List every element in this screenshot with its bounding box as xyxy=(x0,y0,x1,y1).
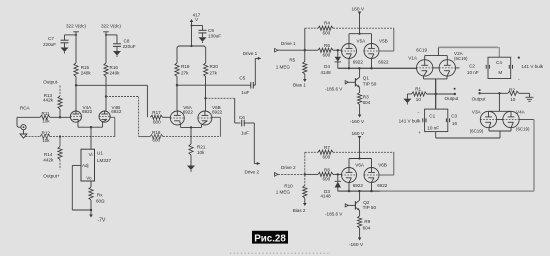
wire: Q1 emitter xyxy=(359,88,361,93)
wire: V6B plate riser xyxy=(204,77,206,112)
svg-text:(6C19): (6C19) xyxy=(516,126,530,131)
svg-text:Output-: Output- xyxy=(43,80,59,85)
wire: R7 to V6B grid (lower) xyxy=(379,152,394,175)
svg-text:C4: C4 xyxy=(496,60,502,65)
svg-text:10 nF: 10 nF xyxy=(467,70,479,75)
resistor R15 xyxy=(74,63,91,77)
resistor R11 xyxy=(17,111,70,123)
transistor Q1 xyxy=(355,76,376,88)
svg-text:Drive 1: Drive 1 xyxy=(281,41,296,46)
svg-text:600: 600 xyxy=(323,52,331,57)
wire: +417V rail xyxy=(190,19,194,47)
capacitor C2 label xyxy=(467,64,479,76)
svg-text:U1: U1 xyxy=(97,151,103,156)
svg-text:C7: C7 xyxy=(48,36,54,41)
svg-text:1uF: 1uF xyxy=(241,131,249,136)
ground (C8) xyxy=(116,46,118,51)
svg-text:V6B: V6B xyxy=(378,163,387,168)
svg-text:R19: R19 xyxy=(181,64,190,69)
svg-text:10k: 10k xyxy=(197,150,205,155)
svg-text:-160 V: -160 V xyxy=(350,119,365,125)
svg-text:600: 600 xyxy=(153,120,161,125)
wire: Q1 collector xyxy=(359,68,361,77)
svg-text:604: 604 xyxy=(363,100,371,105)
svg-text:604: 604 xyxy=(363,225,371,230)
wire: Q2 base stub xyxy=(345,204,355,207)
svg-text:Output: Output xyxy=(445,96,460,101)
node Drive 2 (output arrow) xyxy=(245,162,260,174)
resistor R10 xyxy=(276,183,307,198)
triode V6A xyxy=(170,105,193,125)
svg-text:60Ω: 60Ω xyxy=(96,198,105,203)
svg-text:RCA: RCA xyxy=(20,106,31,111)
node Bias 2 xyxy=(293,198,307,213)
svg-text:10: 10 xyxy=(510,97,516,102)
resistor R14 xyxy=(43,137,62,170)
wire: Q1 base stub xyxy=(345,81,355,84)
svg-text:V4A: V4A xyxy=(516,109,526,114)
wire: V3/V4 plate bar xyxy=(489,93,512,111)
triode V2A (6C19) xyxy=(439,51,468,76)
wire: +322V rail 1 xyxy=(73,32,79,63)
triode V4A xyxy=(70,105,92,122)
resistor R7 xyxy=(305,145,394,160)
resistor R9 xyxy=(358,216,371,230)
wire: rail1 to C7 xyxy=(65,35,77,40)
svg-text:LM337: LM337 xyxy=(97,158,111,163)
triode V6A (lower) xyxy=(342,163,365,189)
power rail label 417V xyxy=(193,13,201,23)
wire: +322V rail 2 xyxy=(103,32,109,63)
svg-text:Output+: Output+ xyxy=(43,174,60,179)
svg-text:TIP 50: TIP 50 xyxy=(363,81,377,86)
capacitor C9 xyxy=(199,28,222,39)
svg-text:6922: 6922 xyxy=(353,60,364,65)
node -185.6V (Q1 base) xyxy=(325,87,343,92)
resistor R18 xyxy=(150,130,163,143)
svg-text:R6: R6 xyxy=(324,43,330,48)
node Output+ (feedback tap) xyxy=(43,174,60,179)
svg-text:C3: C3 xyxy=(451,114,457,119)
svg-text:M: M xyxy=(498,70,502,75)
svg-text:R1: R1 xyxy=(415,87,421,92)
svg-text:27k: 27k xyxy=(181,71,189,76)
node Drive 1 (output arrow) xyxy=(243,51,261,60)
capacitor C8 xyxy=(113,39,136,50)
svg-text:27k: 27k xyxy=(210,71,218,76)
svg-text:D4: D4 xyxy=(324,64,330,69)
wire: Q2 collector xyxy=(359,191,361,200)
svg-text:-160 V: -160 V xyxy=(349,242,364,248)
triode V3A (6C19) xyxy=(470,109,497,133)
svg-text:R5: R5 xyxy=(289,58,295,63)
resistor Rx xyxy=(89,187,105,203)
wire: V4A plate to R17 xyxy=(76,85,147,117)
wire: V5 cathode bus xyxy=(338,59,417,70)
svg-text:130uF: 130uF xyxy=(208,34,221,39)
svg-text:442k: 442k xyxy=(43,157,54,162)
svg-text:V5B: V5B xyxy=(379,38,388,43)
svg-text:-185.6 V: -185.6 V xyxy=(325,87,343,92)
wire: U1 Vo xyxy=(90,181,92,187)
svg-text:R3: R3 xyxy=(363,95,369,100)
wire: rail to C9 xyxy=(192,26,203,31)
wire: R17 to V6A grid xyxy=(163,116,171,118)
svg-text:C5: C5 xyxy=(239,76,245,81)
resistor R8 xyxy=(305,167,342,181)
node -7V xyxy=(89,215,106,224)
svg-text:240k: 240k xyxy=(110,71,121,76)
svg-text:6922: 6922 xyxy=(212,109,223,114)
wire: V4B plate to R18 xyxy=(106,97,139,137)
wire: +160V rail (bottom) xyxy=(358,136,362,159)
wire: V5 bus to V1A grid xyxy=(433,67,460,69)
triode V4B xyxy=(99,105,122,122)
svg-text:Bias 2: Bias 2 xyxy=(293,208,306,213)
capacitor C3 label xyxy=(451,114,457,126)
svg-text:6922: 6922 xyxy=(111,109,122,114)
svg-text:16: 16 xyxy=(452,121,458,126)
svg-text:V6A: V6A xyxy=(355,163,365,168)
resistor R12 xyxy=(26,130,115,143)
wire: output+ line xyxy=(480,92,508,94)
svg-text:4148: 4148 xyxy=(321,70,332,75)
ground (RCA) xyxy=(20,130,27,138)
node Drive 2 (input) xyxy=(275,165,306,176)
resistor R19 xyxy=(175,52,190,77)
wire: drive1 node riser xyxy=(304,28,306,61)
node Output- (feedback tap) xyxy=(43,80,60,97)
svg-text:(6C19): (6C19) xyxy=(470,128,484,133)
svg-text:6922: 6922 xyxy=(353,183,364,188)
svg-text:10: 10 xyxy=(416,97,422,102)
wire: R4 to V5B grid xyxy=(379,28,394,51)
regulator U1 LM337 xyxy=(81,149,111,181)
wire: C1 to lower cathode bus xyxy=(436,131,500,138)
node -141V bulk (bottom) xyxy=(399,110,422,135)
wire: U1 Adj loop xyxy=(72,165,91,210)
svg-text:322 V(dc): 322 V(dc) xyxy=(101,24,121,29)
wire: V6A plate riser xyxy=(176,77,178,112)
resistor R2 xyxy=(508,88,530,102)
node Output+ terminal xyxy=(472,89,487,101)
ground (C9) xyxy=(199,33,207,43)
wire: V4A plate riser xyxy=(75,77,77,112)
svg-text:R16: R16 xyxy=(110,65,119,70)
svg-text:10 nF: 10 nF xyxy=(427,126,439,131)
svg-text:R4: R4 xyxy=(324,21,330,26)
ground (C7) xyxy=(61,43,69,54)
wire: V6 plate bar (lower) xyxy=(349,157,372,167)
power rail label 322V(dc) #1 xyxy=(66,24,86,29)
svg-text:141 V bulk: 141 V bulk xyxy=(521,64,543,69)
svg-text:(6C19): (6C19) xyxy=(454,56,468,61)
wire: R19/R20 top bar xyxy=(177,46,206,52)
wire: R18 to V6B grid xyxy=(139,117,221,136)
capacitor C4 (bulk) xyxy=(486,57,512,78)
svg-text:Drive 1: Drive 1 xyxy=(243,51,258,56)
resistor R3 xyxy=(358,93,371,106)
svg-text:R15: R15 xyxy=(81,65,90,70)
resistor R5 xyxy=(276,58,307,75)
resistor R13 xyxy=(43,93,62,109)
svg-text:Vi: Vi xyxy=(89,152,93,157)
svg-text:R8: R8 xyxy=(324,167,330,172)
svg-text:6922: 6922 xyxy=(377,183,388,188)
ground (R21) xyxy=(187,166,195,172)
svg-text:6922: 6922 xyxy=(183,109,194,114)
svg-text:10k: 10k xyxy=(42,138,50,143)
resistor R16 xyxy=(104,63,120,77)
svg-text:600: 600 xyxy=(323,177,331,182)
svg-text:1 MEG: 1 MEG xyxy=(276,190,291,195)
node Drive 1 (input) xyxy=(275,41,306,52)
svg-text:R12: R12 xyxy=(42,130,51,135)
svg-text:Output: Output xyxy=(472,96,487,101)
wire: C5 to Drive1 out xyxy=(253,58,255,85)
triode V5B xyxy=(364,38,389,64)
svg-text:R18: R18 xyxy=(152,130,161,135)
node Bias 1 xyxy=(293,74,307,88)
connector RCA jack xyxy=(17,106,31,130)
svg-text:4148: 4148 xyxy=(321,194,332,199)
wire: +160V rail (top) xyxy=(358,12,362,34)
caption Рис.28 xyxy=(252,231,288,245)
svg-text:-7V: -7V xyxy=(98,218,106,224)
wire: R13 to input node xyxy=(59,109,61,119)
svg-text:R20: R20 xyxy=(210,64,219,69)
svg-text:220uF: 220uF xyxy=(43,42,56,47)
svg-text:R17: R17 xyxy=(152,110,161,115)
capacitor C5 xyxy=(239,76,253,96)
svg-text:1 MEG: 1 MEG xyxy=(276,65,291,70)
wire: rail2 to C8 xyxy=(106,35,117,44)
capacitor C6 xyxy=(239,115,249,136)
wire: R9 to -160V xyxy=(359,228,361,238)
diode D3 xyxy=(321,174,342,198)
svg-text:R21: R21 xyxy=(197,145,206,150)
svg-text:R14: R14 xyxy=(44,152,53,157)
svg-text:R9: R9 xyxy=(364,219,370,224)
svg-text:Adj: Adj xyxy=(82,163,89,168)
svg-text:Bias 1: Bias 1 xyxy=(293,83,306,88)
svg-text:C6: C6 xyxy=(239,115,245,120)
svg-text:600: 600 xyxy=(323,30,331,35)
wire: plate bar to C4 xyxy=(438,47,499,57)
svg-text:6922: 6922 xyxy=(378,60,389,65)
svg-text:V1A: V1A xyxy=(408,56,418,61)
svg-text:322 V(dc): 322 V(dc) xyxy=(66,24,86,29)
svg-text:600: 600 xyxy=(152,138,160,143)
wire: V6 cathode bus xyxy=(181,125,202,144)
svg-text:1uF: 1uF xyxy=(241,90,249,95)
svg-text:V3A: V3A xyxy=(472,109,482,114)
capacitor C1 (bulk) xyxy=(423,109,450,132)
svg-text:C1: C1 xyxy=(429,114,435,119)
svg-text:6922: 6922 xyxy=(82,109,93,114)
wire: V1/V2 cathode bus xyxy=(424,76,448,109)
svg-text:6C19: 6C19 xyxy=(416,48,427,53)
wire: Rx to -7V node xyxy=(90,200,92,215)
svg-text:C9: C9 xyxy=(208,28,214,33)
svg-text:C8: C8 xyxy=(124,39,130,44)
svg-text:+: + xyxy=(418,130,421,135)
wire: Q2 emitter xyxy=(359,211,361,216)
wire: V6B plate to C6 xyxy=(206,98,241,123)
node +141V bulk (top) xyxy=(518,57,544,83)
wire: V5 plate bar xyxy=(349,33,372,44)
svg-text:Q1: Q1 xyxy=(363,76,370,81)
svg-text:R11: R11 xyxy=(42,111,51,116)
wire: R21 to ground xyxy=(190,155,192,166)
svg-text:10k: 10k xyxy=(42,118,50,123)
caption dots xyxy=(230,252,331,254)
ground (R2) xyxy=(526,93,534,101)
svg-text:220uF: 220uF xyxy=(123,44,136,49)
wire: drive2 node riser xyxy=(304,152,306,185)
resistor R6 xyxy=(305,43,342,57)
node -160V (bottom) xyxy=(349,238,364,249)
svg-text:141 V bulk: 141 V bulk xyxy=(399,119,421,124)
wire: lower cathode bus xyxy=(338,183,380,193)
svg-text:TIP 50: TIP 50 xyxy=(363,205,377,210)
svg-text:Rx: Rx xyxy=(97,193,103,198)
node Output- terminal xyxy=(445,88,460,102)
triode V1A (6C19) xyxy=(408,48,433,77)
diode D4 xyxy=(321,50,342,75)
wire: V4B plate riser xyxy=(105,77,107,112)
wire: R12 to V4B grid xyxy=(110,117,115,136)
wire: C6 to Drive2 out xyxy=(244,123,254,164)
triode V6B xyxy=(198,105,223,125)
resistor R17 xyxy=(151,110,163,125)
triode V5A xyxy=(342,38,367,64)
svg-text:Drive 2: Drive 2 xyxy=(245,169,260,174)
resistor R20 xyxy=(204,52,219,77)
svg-text:600: 600 xyxy=(323,154,331,159)
ground (R1) xyxy=(403,94,411,105)
wire: V1/V2 plate bar xyxy=(425,47,448,59)
svg-text:C2: C2 xyxy=(469,64,475,69)
power rail label 160V (bottom) xyxy=(352,131,365,137)
resistor R1 xyxy=(407,87,454,102)
node -185.6V (Q2 base) xyxy=(325,212,343,217)
svg-text:-185.6 V: -185.6 V xyxy=(325,212,343,217)
wire: V6A plate to C5 xyxy=(177,84,251,86)
svg-text:240k: 240k xyxy=(81,71,92,76)
ground arrow (C8) xyxy=(113,51,121,57)
power rail label 322V(dc) #2 xyxy=(101,24,121,29)
node -160V (top) xyxy=(350,115,365,126)
resistor R21 xyxy=(189,144,206,155)
svg-text:R2: R2 xyxy=(509,88,515,93)
triode V4A (6C19) xyxy=(503,109,530,131)
triode V6B (lower) xyxy=(364,163,388,189)
resistor R4 xyxy=(305,21,394,36)
svg-text:R10: R10 xyxy=(284,183,293,188)
wire: V4 cathode bus xyxy=(78,121,103,149)
wire: R3 to -160V xyxy=(359,105,361,115)
svg-text:442k: 442k xyxy=(43,98,54,103)
svg-text:V5A: V5A xyxy=(357,38,367,43)
power rail label 160V (top) xyxy=(352,7,365,13)
transistor Q2 xyxy=(355,200,376,211)
svg-text:Vo: Vo xyxy=(86,175,92,180)
capacitor C7 xyxy=(43,36,69,47)
wire: V3/V4 cathode bus xyxy=(489,128,511,131)
svg-text:Рис.28: Рис.28 xyxy=(254,233,286,244)
svg-text:R7: R7 xyxy=(324,145,330,150)
svg-text:Drive 2: Drive 2 xyxy=(281,165,296,170)
wire: lower grid bus xyxy=(380,120,534,192)
